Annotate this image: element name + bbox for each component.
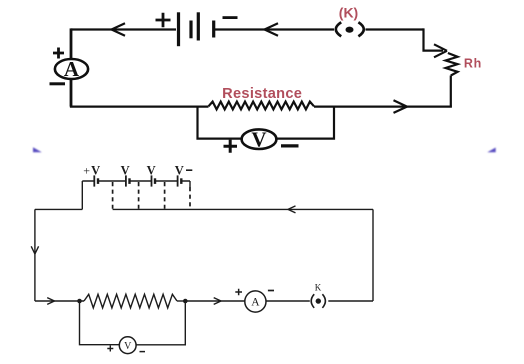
top main wire of loop xyxy=(113,208,373,210)
current arrow right-pointing on bottom wire xyxy=(394,100,408,113)
cell 2 long plate xyxy=(125,175,127,186)
svg-text:K: K xyxy=(315,283,322,293)
key K1 right parenthesis xyxy=(358,22,363,36)
wire key to ammeter xyxy=(266,300,310,302)
bottom-right wire to key xyxy=(328,300,373,302)
ammeter minus label xyxy=(268,290,274,292)
svg-text:Rh: Rh xyxy=(464,56,482,70)
minus label of ammeter xyxy=(50,82,66,85)
svg-text:V: V xyxy=(121,164,130,178)
svg-text:+: + xyxy=(83,164,90,178)
svg-text:V: V xyxy=(124,341,132,352)
purple wedge right xyxy=(487,148,495,153)
wire resistor node to ammeter xyxy=(185,300,245,302)
wire below rheostat xyxy=(450,76,452,107)
svg-text:V: V xyxy=(175,164,184,178)
battery plus terminal drop xyxy=(81,181,83,209)
voltmeter branch right side xyxy=(277,106,335,139)
svg-text:V: V xyxy=(147,164,156,178)
svg-text:V: V xyxy=(91,164,100,178)
key K1 left parenthesis xyxy=(336,22,341,36)
cell 3 long plate xyxy=(151,175,153,186)
cell label minus after V4 xyxy=(186,169,192,171)
key K2 contact dot xyxy=(316,298,321,303)
battery B1 short plate 1 xyxy=(189,21,192,39)
resistor R2 zigzag xyxy=(84,294,177,308)
battery B1 long plate 2 xyxy=(197,12,200,40)
cell 1 short plate xyxy=(97,178,99,184)
top-left horizontal wire xyxy=(35,208,82,210)
svg-text:A: A xyxy=(251,297,260,309)
svg-text:A: A xyxy=(64,57,80,81)
current arrow right-pointing bottom-left xyxy=(47,298,54,305)
battery plus label xyxy=(156,13,171,28)
dashed divider 3 xyxy=(164,182,166,209)
voltmeter U3 circle xyxy=(119,337,136,354)
svg-text:Resistance: Resistance xyxy=(222,86,302,102)
svg-text:(K): (K) xyxy=(339,5,358,21)
bottom wire left segment xyxy=(70,105,209,107)
battery cell line wire segments xyxy=(82,180,190,182)
voltmeter plus label xyxy=(107,346,113,352)
key K2 right parenthesis xyxy=(322,294,325,308)
voltmeter branch right side xyxy=(136,301,185,345)
voltmeter plus label xyxy=(224,140,238,153)
current arrow right-pointing before ammeter xyxy=(214,298,221,305)
voltmeter minus label xyxy=(140,351,146,353)
wire vertical left below ammeter xyxy=(70,79,73,107)
cell 3 short plate xyxy=(154,178,156,184)
current arrow left-pointing on top wire (left) xyxy=(112,23,126,35)
voltmeter branch left drop xyxy=(80,301,120,345)
ammeter plus label xyxy=(235,289,242,296)
voltmeter U2 ellipse xyxy=(242,129,277,149)
ammeter A2 circle xyxy=(245,291,266,312)
battery minus corner solid part xyxy=(189,181,191,187)
wire top-left horizontal xyxy=(71,28,176,30)
cell 4 long plate xyxy=(177,175,179,186)
current arrow left-pointing on top wire (right of battery) xyxy=(265,23,279,35)
dashed divider 1 xyxy=(112,182,114,209)
dashed divider 2 xyxy=(138,182,140,209)
bottom wire right segment xyxy=(314,105,452,107)
rheostat arrow head xyxy=(434,44,447,57)
key K2 left parenthesis xyxy=(311,294,314,308)
current arrow left-pointing on top main wire xyxy=(288,206,296,213)
battery B1 short plate 2 xyxy=(212,21,215,38)
dashed divider 4 xyxy=(189,187,191,209)
wire zigzag end to node xyxy=(177,300,185,302)
node dot right of resistor xyxy=(183,299,188,304)
cell 4 short plate xyxy=(180,178,182,184)
wire right corner down to rheostat arrow xyxy=(424,28,444,50)
purple wedge left xyxy=(33,147,42,152)
ammeter U1 ellipse xyxy=(55,59,88,79)
right column wire xyxy=(372,209,374,301)
current arrow down-pointing on left column xyxy=(31,246,38,254)
plus label of ammeter xyxy=(53,48,64,59)
voltmeter branch left drop xyxy=(198,107,242,139)
left column wire xyxy=(34,209,36,301)
node dot left of resistor xyxy=(77,299,82,304)
key K1 contact dot xyxy=(346,27,354,33)
bottom-left wire into resistor xyxy=(35,300,84,302)
wire vertical left above ammeter xyxy=(70,28,73,59)
resistor R1 zigzag (Resistance) xyxy=(209,102,315,110)
rheostat Rh zigzag xyxy=(446,53,458,76)
voltmeter minus label xyxy=(281,144,299,147)
wire battery to key xyxy=(215,28,335,30)
cell 2 short plate xyxy=(128,178,130,184)
battery minus label xyxy=(223,16,238,19)
svg-text:V: V xyxy=(251,128,266,152)
battery B1 long plate 1 xyxy=(177,12,180,46)
wire key to right corner xyxy=(366,28,424,30)
cell 1 long plate xyxy=(93,175,95,186)
